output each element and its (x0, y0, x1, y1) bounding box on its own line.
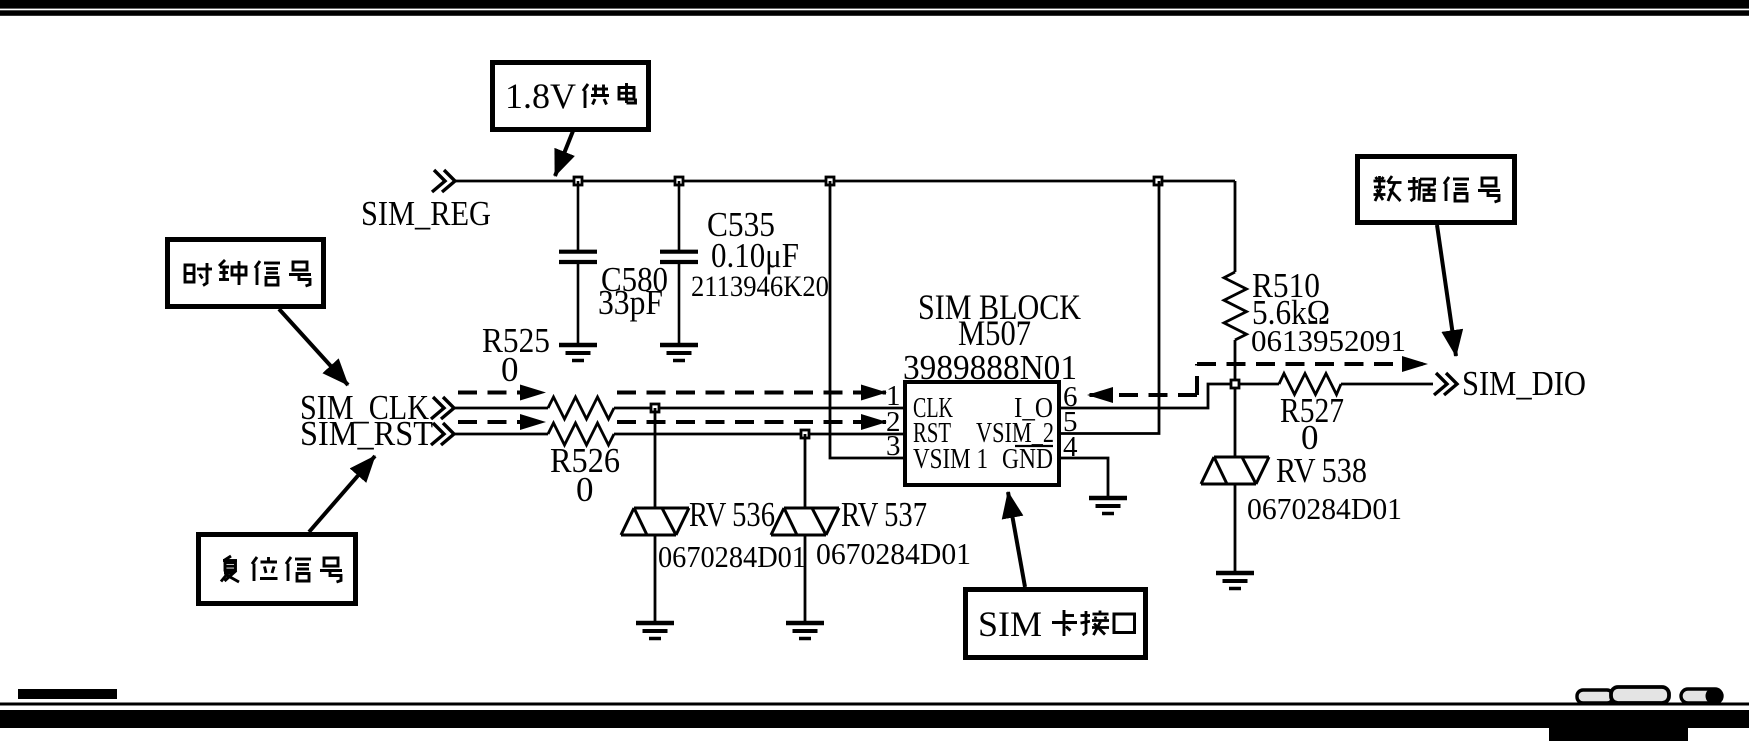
junction at R527 node (1231, 380, 1239, 388)
wire pin4 GND to ground (1059, 458, 1108, 496)
svg-text:3989888N01: 3989888N01 (903, 348, 1077, 387)
junction on rail at C535 (675, 177, 683, 185)
svg-text:1.8V: 1.8V (505, 76, 576, 116)
dashed reset flow arrow to pin2 (617, 420, 886, 424)
resistor R526 (548, 423, 614, 445)
arrow from data box to SIM_DIO (1437, 225, 1456, 356)
svg-text:0: 0 (576, 470, 594, 509)
callout box 1.8V supply (493, 63, 649, 130)
node SIM_REG input port (432, 170, 455, 192)
wire R510 to RV538 (1234, 340, 1237, 457)
junction CLK line to RV536 (651, 404, 659, 412)
decorative footer icons (1577, 687, 1723, 705)
wire RV538 to ground (1234, 484, 1237, 571)
wire junction to RV537 (804, 434, 807, 508)
svg-text:SIM: SIM (978, 604, 1042, 644)
wire pin5 VSIM_2 to rail (1059, 181, 1159, 434)
wire rail to pin3 VSIM1 (830, 181, 905, 458)
svg-text:SIM_RST: SIM_RST (300, 414, 433, 453)
ground of pin4 (1089, 498, 1127, 514)
callout box data signal (1358, 157, 1515, 223)
wire junction to R527 (1239, 383, 1279, 386)
wire SIM_CLK to R525 (454, 407, 548, 410)
svg-text:0: 0 (501, 350, 519, 389)
callout box SIM card interface (966, 590, 1146, 658)
svg-text:0670284D01: 0670284D01 (1247, 491, 1402, 526)
capacitor C535 (660, 181, 698, 343)
svg-text:SIM_REG: SIM_REG (361, 194, 491, 233)
resistor R525 (548, 397, 614, 419)
arrow from 1.8V box to rail (555, 131, 573, 176)
varistor RV537 (771, 508, 839, 535)
ground of C580 (559, 345, 597, 361)
varistor RV536 (621, 508, 689, 535)
dashed data flow line pin6 to SIM_DIO (1088, 393, 1197, 397)
junction on rail at C580 (574, 177, 582, 185)
svg-text:2113946K20: 2113946K20 (691, 270, 829, 303)
junction on rail at VSIM1 branch (826, 177, 834, 185)
svg-text:RV 538: RV 538 (1276, 451, 1367, 490)
ground of RV537 (786, 623, 824, 639)
ground of RV538 (1216, 573, 1254, 589)
wire RV537 to ground (804, 535, 807, 621)
svg-text:RV 537: RV 537 (841, 495, 927, 534)
capacitor C580 (559, 181, 597, 343)
svg-text:VSIM 1: VSIM 1 (913, 444, 988, 475)
junction on rail at VSIM2 branch (1154, 177, 1162, 185)
varistor RV538 (1201, 457, 1269, 484)
wire R525 to pin1 (614, 407, 903, 410)
svg-text:GND: GND (1002, 444, 1053, 475)
callout box reset signal (199, 535, 356, 604)
ground of RV536 (636, 623, 674, 639)
resistor R510 (1224, 272, 1247, 340)
wire power rail SIM_REG (455, 180, 1235, 183)
wire pin6 I_O to junction (1059, 384, 1231, 408)
dashed clock flow arrow before R525 (458, 391, 545, 395)
svg-text:0670284D01: 0670284D01 (658, 539, 806, 574)
IC U1 SIM BLOCK M507 outline (905, 382, 1059, 485)
dashed clock flow arrow to pin1 (617, 391, 886, 395)
resistor R527 (1279, 374, 1341, 395)
wire R526 to pin2 (614, 433, 903, 436)
ground of C535 (660, 345, 698, 361)
wire rail down to R510 (1234, 181, 1237, 272)
arrow from SIM card box to block (1008, 492, 1025, 587)
arrow from reset box to SIM_RST (309, 456, 375, 532)
junction RST line to RV537 (801, 430, 809, 438)
wire R527 to SIM_DIO port (1341, 383, 1433, 386)
callout box clock signal (168, 240, 324, 307)
wire RV536 to ground (654, 535, 657, 621)
svg-text:M507: M507 (958, 313, 1031, 353)
dashed reset flow arrow before R526 (458, 420, 545, 424)
svg-text:0613952091: 0613952091 (1251, 323, 1406, 358)
wire junction to RV536 (654, 408, 657, 508)
svg-text:0670284D01: 0670284D01 (816, 536, 971, 571)
svg-text:33pF: 33pF (598, 283, 663, 322)
node SIM_CLK input port (431, 397, 454, 419)
node SIM_DIO output port (1434, 373, 1457, 395)
node SIM_RST input port (431, 423, 454, 445)
arrow from clock box to SIM_CLK (279, 309, 348, 385)
svg-text:RV 536: RV 536 (689, 495, 775, 534)
wire SIM_RST to R526 (454, 433, 548, 436)
svg-text:SIM_DIO: SIM_DIO (1462, 364, 1586, 403)
